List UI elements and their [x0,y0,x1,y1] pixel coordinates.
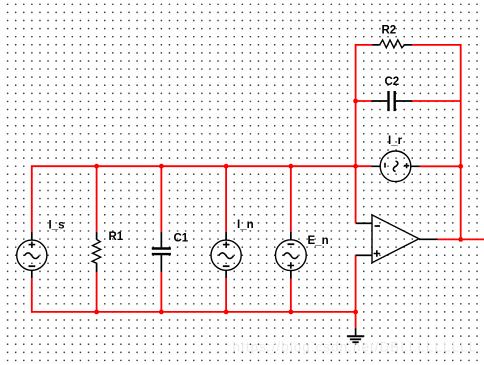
label C2 [385,76,400,88]
label R1 [109,231,124,243]
wire: I_n branch verticals [225,166,227,312]
wire: I_r right lead to right vertical [420,165,461,167]
wire: feedback left vertical to op-amp inverting input [355,44,357,223]
resistor R1 [92,232,101,272]
label E_n [308,235,329,247]
label I_r [388,135,403,147]
capacitor C2 [372,91,413,111]
junction dot I_r right [458,164,463,169]
junction dots on top bus [94,164,358,169]
wire: C1 branch verticals [160,166,162,312]
wire: ground stem red segment [355,312,357,328]
label I_s [49,219,65,231]
resistor R2 [372,40,412,48]
wire: bottom ground bus [31,311,356,313]
wire: non-inverting input vertical to ground bus [355,255,357,312]
label I_n [237,219,254,231]
wire: top bus node A [31,165,371,167]
capacitor C1 [152,232,171,272]
ground [347,328,364,342]
voltage source E_n [275,232,306,279]
watermark text [233,340,478,355]
wire: R2 horizontal leads [355,44,462,46]
wire: E_n branch verticals [290,166,292,312]
svg-text:I_r: I_r [388,135,403,147]
current source I_s [17,232,47,278]
op-amp U1 [356,215,438,263]
wire: op-amp output to right edge [438,238,484,240]
current source I_n [211,232,241,278]
svg-text:R1: R1 [109,231,124,243]
svg-text:C2: C2 [385,76,400,88]
junction dot output [458,237,463,242]
svg-text:C1: C1 [174,232,189,244]
junction dot C2 left [353,99,358,104]
svg-text:E_n: E_n [308,235,329,247]
label C1 [174,232,189,244]
current source I_r [371,151,419,182]
wire: R1 branch verticals [96,166,98,312]
label R2 [382,25,397,37]
wire: C2 horizontal leads [356,100,461,102]
junction dots on bottom bus [94,310,358,315]
svg-text:I_s: I_s [49,219,65,231]
wire: right feedback vertical [460,44,462,239]
svg-text:R2: R2 [382,25,397,37]
svg-text:I_n: I_n [237,219,254,231]
wire: I_s branch verticals [31,165,33,312]
